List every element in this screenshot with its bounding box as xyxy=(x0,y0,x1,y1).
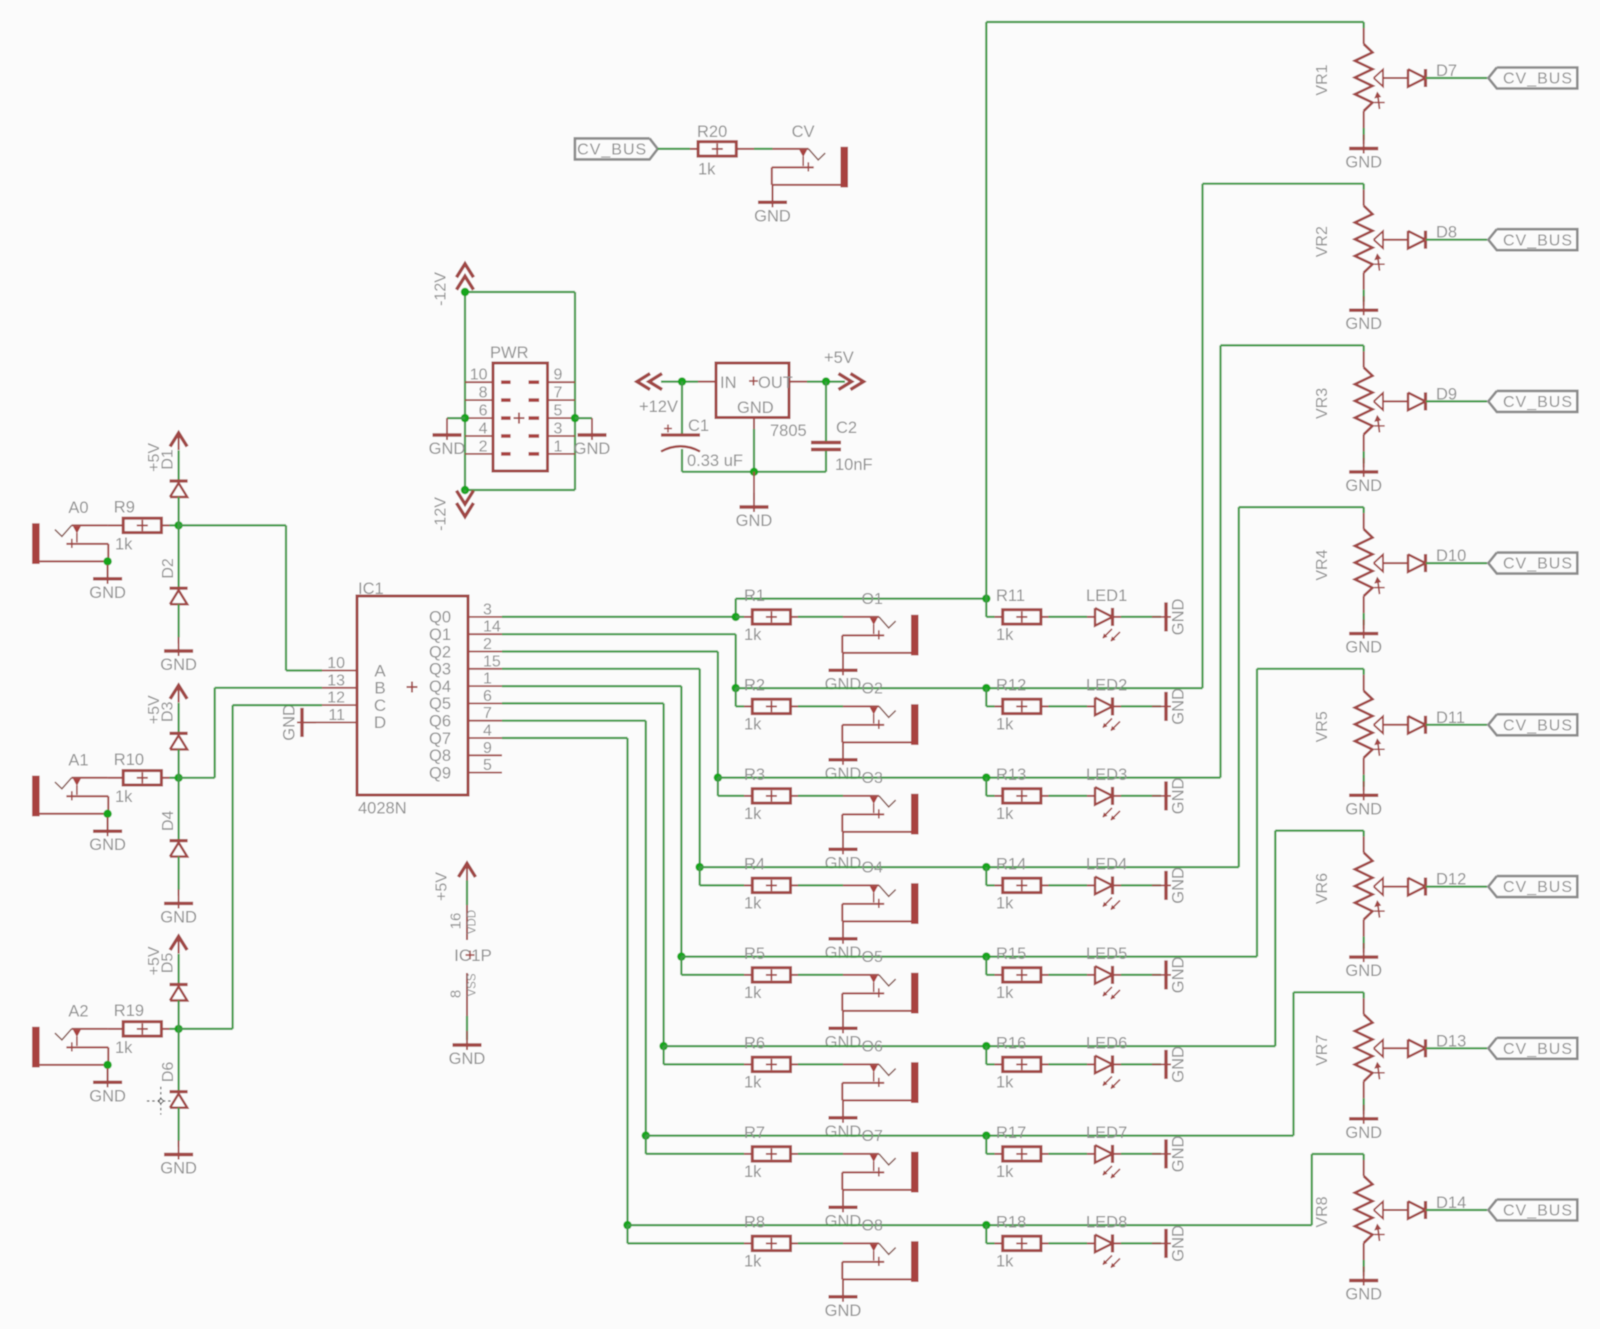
ground xyxy=(160,889,197,926)
wire xyxy=(178,604,180,637)
ground xyxy=(449,1031,486,1068)
wire xyxy=(178,778,180,841)
svg-text:D1: D1 xyxy=(160,449,177,470)
LED1 xyxy=(1086,587,1127,641)
wire xyxy=(1121,974,1161,976)
wire xyxy=(798,884,843,886)
wire xyxy=(1294,992,1364,1135)
svg-text:O7: O7 xyxy=(862,1128,883,1145)
potentiometer VR5 xyxy=(1314,675,1385,758)
ground xyxy=(281,704,323,741)
svg-text:4: 4 xyxy=(479,421,488,438)
junction xyxy=(982,684,990,692)
svg-text:GND: GND xyxy=(1170,867,1188,904)
svg-text:1k: 1k xyxy=(744,894,762,912)
svg-text:VR4: VR4 xyxy=(1314,549,1331,580)
wire xyxy=(986,957,994,975)
svg-text:R4: R4 xyxy=(744,856,765,874)
wire xyxy=(178,1001,180,1029)
wire xyxy=(681,382,683,434)
svg-text:O3: O3 xyxy=(862,770,883,787)
ground xyxy=(1345,458,1382,495)
flag CV_BUS (VR5) xyxy=(1488,714,1577,735)
svg-text:R15: R15 xyxy=(996,945,1026,963)
svg-text:Q4: Q4 xyxy=(429,678,451,696)
wire xyxy=(1363,758,1365,787)
supply +5V (D1 ladder) xyxy=(146,433,187,472)
junction xyxy=(174,774,182,782)
svg-text:GND: GND xyxy=(825,944,862,962)
svg-text:GND: GND xyxy=(1345,800,1382,818)
junction xyxy=(714,773,722,781)
wire xyxy=(825,382,827,472)
wire xyxy=(1121,705,1161,707)
svg-text:3: 3 xyxy=(483,601,492,618)
power pins IC1P xyxy=(448,905,492,1016)
svg-text:10nF: 10nF xyxy=(835,456,873,474)
regulator IC2 7805 xyxy=(698,363,807,440)
wire Q7 net xyxy=(502,738,628,1225)
svg-text:Q8: Q8 xyxy=(429,747,451,765)
wire xyxy=(842,1190,844,1206)
ground xyxy=(1152,777,1188,814)
svg-text:1k: 1k xyxy=(744,805,762,823)
svg-text:A: A xyxy=(374,661,386,680)
svg-text:GND: GND xyxy=(1170,1135,1188,1172)
svg-text:Q3: Q3 xyxy=(429,661,451,679)
wire xyxy=(179,688,322,778)
wire xyxy=(465,489,575,491)
junction xyxy=(677,952,685,960)
capacitor C1 xyxy=(661,417,743,470)
cursor crosshair xyxy=(147,1087,172,1115)
wire Q4 net xyxy=(502,686,681,957)
svg-text:15: 15 xyxy=(483,653,501,670)
wire xyxy=(108,1028,124,1030)
jack O8 xyxy=(842,1217,918,1282)
wire xyxy=(1049,1242,1088,1244)
wire xyxy=(658,148,773,150)
wire xyxy=(179,705,322,1029)
wire xyxy=(661,381,698,383)
wire xyxy=(1121,884,1161,886)
svg-text:Q1: Q1 xyxy=(429,626,451,644)
wire xyxy=(1363,669,1365,675)
svg-text:1k: 1k xyxy=(744,715,762,733)
svg-text:R17: R17 xyxy=(996,1124,1026,1142)
supply +5V (7805 out) xyxy=(824,349,864,390)
diode D9 xyxy=(1383,385,1457,410)
ground xyxy=(1345,620,1382,657)
svg-text:Q5: Q5 xyxy=(429,695,451,713)
wire xyxy=(1121,616,1161,618)
wire xyxy=(1121,1063,1161,1065)
wire xyxy=(107,814,109,830)
junction xyxy=(982,1131,990,1139)
svg-text:OUT: OUT xyxy=(758,374,793,392)
resistor R13 xyxy=(995,766,1049,823)
svg-text:GND: GND xyxy=(825,1212,862,1230)
svg-text:2: 2 xyxy=(479,438,488,455)
svg-text:D3: D3 xyxy=(160,701,177,722)
wire xyxy=(736,688,744,706)
svg-text:GND: GND xyxy=(1345,154,1382,172)
wire xyxy=(170,1028,179,1030)
wire xyxy=(1363,1243,1365,1272)
resistor R20 xyxy=(690,123,754,178)
ground xyxy=(1345,135,1382,172)
junction xyxy=(732,684,740,692)
svg-text:1k: 1k xyxy=(996,715,1014,733)
wire xyxy=(466,1016,468,1040)
wire Q0 net xyxy=(502,599,736,617)
svg-text:R20: R20 xyxy=(697,123,727,141)
wire xyxy=(798,1153,843,1155)
supply +5V (D5 ladder) xyxy=(146,937,187,976)
LED5 xyxy=(1086,945,1127,999)
ground xyxy=(1345,943,1382,980)
ground xyxy=(89,565,126,602)
wire xyxy=(798,1063,843,1065)
jack A0 xyxy=(32,499,108,564)
svg-text:GND: GND xyxy=(89,836,126,854)
svg-text:CV_BUS: CV_BUS xyxy=(1503,1203,1573,1220)
svg-text:LED8: LED8 xyxy=(1086,1214,1127,1232)
svg-text:GND: GND xyxy=(737,399,774,417)
wire xyxy=(681,957,744,975)
svg-text:12: 12 xyxy=(327,690,345,707)
svg-text:GND: GND xyxy=(825,765,862,783)
jack O6 xyxy=(842,1038,918,1103)
ground xyxy=(825,1014,862,1051)
wire xyxy=(700,867,744,885)
svg-text:CV_BUS: CV_BUS xyxy=(1503,717,1573,734)
wire xyxy=(1363,434,1365,463)
ground xyxy=(1345,781,1382,818)
wire xyxy=(798,974,843,976)
potentiometer VR1 xyxy=(1314,28,1385,111)
junction xyxy=(103,810,111,818)
svg-text:7: 7 xyxy=(554,385,563,402)
svg-text:GND: GND xyxy=(1170,688,1188,725)
wire Q2 net xyxy=(502,652,718,778)
svg-text:GND: GND xyxy=(1170,956,1188,993)
wire xyxy=(628,1225,745,1243)
jack A2 xyxy=(32,1003,108,1068)
wire xyxy=(807,381,845,383)
svg-text:R12: R12 xyxy=(996,677,1026,695)
junction xyxy=(982,1221,990,1229)
ground xyxy=(825,1104,862,1141)
wire xyxy=(1049,884,1088,886)
flag CV_BUS (VR6) xyxy=(1488,876,1577,897)
svg-text:Q7: Q7 xyxy=(429,730,451,748)
wire xyxy=(646,1136,744,1154)
LED4 xyxy=(1086,856,1127,910)
potentiometer VR2 xyxy=(1314,190,1385,273)
supply +5V (D3 ladder) xyxy=(146,685,187,724)
svg-text:1k: 1k xyxy=(744,1073,762,1091)
svg-text:GND: GND xyxy=(1170,598,1188,635)
svg-text:GND: GND xyxy=(1345,1286,1382,1304)
wire xyxy=(1049,1063,1088,1065)
ground xyxy=(1152,688,1188,725)
svg-text:3: 3 xyxy=(554,421,563,438)
svg-text:C1: C1 xyxy=(688,417,709,435)
svg-text:1k: 1k xyxy=(698,160,716,178)
junction xyxy=(678,377,686,385)
wire xyxy=(628,1224,1312,1226)
diode D6 xyxy=(160,1062,188,1108)
junction xyxy=(461,486,469,494)
wire xyxy=(1363,831,1365,837)
diode D3 xyxy=(160,701,188,749)
svg-text:LED5: LED5 xyxy=(1086,945,1127,963)
wire xyxy=(986,688,994,706)
wire xyxy=(1275,831,1363,1047)
svg-text:R13: R13 xyxy=(996,766,1026,784)
flag CV_BUS (VR8) xyxy=(1488,1200,1577,1221)
svg-text:VR8: VR8 xyxy=(1314,1196,1331,1227)
svg-text:6: 6 xyxy=(479,403,488,420)
svg-text:2: 2 xyxy=(483,636,492,653)
wire xyxy=(842,1100,844,1116)
junction xyxy=(642,1131,650,1139)
svg-text:CV_BUS: CV_BUS xyxy=(577,141,647,158)
wire xyxy=(736,597,987,599)
svg-text:A0: A0 xyxy=(68,499,88,517)
wire xyxy=(170,777,179,779)
svg-text:LED3: LED3 xyxy=(1086,766,1127,784)
svg-text:LED2: LED2 xyxy=(1086,677,1127,695)
resistor R5 xyxy=(744,945,798,1002)
LED7 xyxy=(1086,1124,1127,1178)
wire xyxy=(1363,596,1365,625)
wire xyxy=(1049,1153,1088,1155)
wire xyxy=(986,1046,994,1064)
wire xyxy=(178,703,180,734)
junction xyxy=(982,594,990,602)
svg-text:CV_BUS: CV_BUS xyxy=(1503,879,1573,896)
svg-text:+5V: +5V xyxy=(824,349,854,367)
svg-text:VR1: VR1 xyxy=(1314,64,1331,95)
svg-text:+5V: +5V xyxy=(434,872,451,901)
svg-text:GND: GND xyxy=(1170,1046,1188,1083)
svg-text:R1: R1 xyxy=(744,587,765,605)
wire xyxy=(465,288,575,490)
wire xyxy=(1121,795,1161,797)
wire xyxy=(108,524,124,526)
svg-text:GND: GND xyxy=(160,1160,197,1178)
svg-text:R8: R8 xyxy=(744,1214,765,1232)
svg-text:Q6: Q6 xyxy=(429,713,451,731)
svg-text:1k: 1k xyxy=(744,626,762,644)
svg-text:GND: GND xyxy=(825,1302,862,1320)
svg-text:GND: GND xyxy=(89,1087,126,1105)
wire xyxy=(178,857,180,890)
LED2 xyxy=(1086,677,1127,731)
junction xyxy=(982,863,990,871)
wire xyxy=(1363,1081,1365,1110)
junction xyxy=(732,613,740,621)
jack O4 xyxy=(842,859,918,923)
wire xyxy=(1239,507,1364,867)
resistor R17 xyxy=(995,1124,1049,1181)
wire xyxy=(1049,795,1088,797)
svg-text:GND: GND xyxy=(89,584,126,602)
resistor R9 xyxy=(114,498,170,553)
wire xyxy=(1363,920,1365,949)
ground xyxy=(160,1141,197,1178)
potentiometer VR7 xyxy=(1314,998,1385,1081)
wire xyxy=(842,1011,844,1027)
svg-text:VR7: VR7 xyxy=(1314,1035,1331,1066)
svg-text:O2: O2 xyxy=(862,680,883,697)
svg-text:LED1: LED1 xyxy=(1086,587,1127,605)
svg-text:-12V: -12V xyxy=(433,497,450,531)
wire xyxy=(842,832,844,848)
wire xyxy=(986,599,994,617)
junction xyxy=(659,1042,667,1050)
svg-text:8: 8 xyxy=(479,385,488,402)
ground xyxy=(825,1283,862,1320)
svg-text:GND: GND xyxy=(825,1033,862,1051)
svg-text:D2: D2 xyxy=(160,558,177,579)
svg-text:1k: 1k xyxy=(996,984,1014,1002)
svg-text:CV: CV xyxy=(792,123,815,141)
svg-text:VDD: VDD xyxy=(467,910,479,934)
flag CV_BUS (VR3) xyxy=(1488,391,1577,412)
svg-text:Q0: Q0 xyxy=(429,609,451,627)
svg-text:1k: 1k xyxy=(996,805,1014,823)
wire xyxy=(646,1134,1294,1136)
wire Q3 net xyxy=(502,669,700,867)
wire xyxy=(1363,992,1365,998)
wire xyxy=(178,1108,180,1141)
connector PWR xyxy=(465,344,575,471)
svg-text:GND: GND xyxy=(160,656,197,674)
svg-text:GND: GND xyxy=(825,854,862,872)
flag CV_BUS (VR7) xyxy=(1488,1038,1577,1059)
diode D7 xyxy=(1383,62,1457,87)
diode D8 xyxy=(1383,224,1457,249)
wire xyxy=(986,1136,994,1154)
diode D4 xyxy=(160,810,188,856)
svg-text:5: 5 xyxy=(483,757,492,774)
wire xyxy=(170,524,179,526)
svg-text:GND: GND xyxy=(1170,777,1188,814)
svg-text:GND: GND xyxy=(429,440,466,458)
svg-text:VR3: VR3 xyxy=(1314,388,1331,419)
resistor R8 xyxy=(744,1214,798,1271)
wire xyxy=(1049,974,1088,976)
ground xyxy=(825,656,862,693)
wire xyxy=(1426,1209,1487,1211)
svg-text:4028N: 4028N xyxy=(358,800,407,818)
svg-text:R2: R2 xyxy=(744,677,765,695)
junction xyxy=(822,377,830,385)
wire Q6 net xyxy=(502,721,646,1136)
ground xyxy=(825,925,862,962)
svg-text:GND: GND xyxy=(1345,477,1382,495)
wire xyxy=(736,687,1203,689)
potentiometer VR8 xyxy=(1314,1160,1385,1243)
flag CV_BUS (VR1) xyxy=(1488,68,1577,89)
wire xyxy=(681,955,1257,957)
wire xyxy=(682,449,826,472)
svg-text:D4: D4 xyxy=(160,810,177,831)
resistor R16 xyxy=(995,1035,1049,1092)
svg-text:GND: GND xyxy=(1345,962,1382,980)
junction xyxy=(982,773,990,781)
wire Q1 net xyxy=(502,634,736,688)
capacitor C2 xyxy=(811,419,873,474)
svg-text:1k: 1k xyxy=(115,788,133,806)
svg-text:IC1: IC1 xyxy=(358,580,384,598)
wire xyxy=(1426,400,1487,402)
svg-text:1k: 1k xyxy=(996,1073,1014,1091)
svg-text:9: 9 xyxy=(554,367,563,384)
resistor R10 xyxy=(114,751,170,806)
svg-text:1k: 1k xyxy=(115,1039,133,1057)
svg-text:1k: 1k xyxy=(744,1252,762,1270)
ground xyxy=(1152,598,1188,635)
wire Q5 net xyxy=(502,703,664,1046)
diode D13 xyxy=(1383,1032,1466,1057)
ground xyxy=(1152,867,1188,904)
jack O5 xyxy=(842,949,918,1013)
diode D1 xyxy=(160,449,188,497)
wire xyxy=(1426,885,1487,887)
jack O1 xyxy=(842,591,918,655)
svg-text:A2: A2 xyxy=(68,1003,88,1021)
diode D10 xyxy=(1383,547,1466,572)
resistor R4 xyxy=(744,856,798,913)
resistor R14 xyxy=(995,856,1049,913)
svg-text:1k: 1k xyxy=(996,894,1014,912)
wire xyxy=(798,795,843,797)
svg-text:1: 1 xyxy=(483,671,492,688)
ground xyxy=(160,637,197,674)
resistor R19 xyxy=(114,1002,170,1057)
wire xyxy=(718,778,744,796)
svg-text:10: 10 xyxy=(327,655,345,672)
ground xyxy=(1152,1135,1188,1172)
ground xyxy=(825,1193,862,1230)
ground xyxy=(825,746,862,783)
ground xyxy=(754,188,791,225)
wire xyxy=(798,705,843,707)
potentiometer VR3 xyxy=(1314,351,1385,434)
wire xyxy=(1221,345,1364,777)
svg-text:14: 14 xyxy=(483,619,501,636)
wire xyxy=(1363,345,1365,351)
svg-text:GND: GND xyxy=(281,704,299,741)
ground xyxy=(825,835,862,872)
svg-text:9: 9 xyxy=(483,740,492,757)
LED6 xyxy=(1086,1035,1127,1089)
ground xyxy=(736,472,773,530)
junction xyxy=(623,1221,631,1229)
wire xyxy=(1363,507,1365,513)
wire xyxy=(1121,1242,1161,1244)
wire xyxy=(1121,1153,1161,1155)
flag CV_BUS (top input) xyxy=(575,138,658,159)
svg-text:R19: R19 xyxy=(114,1002,144,1020)
wire xyxy=(178,497,180,525)
resistor R1 xyxy=(736,587,798,644)
wire xyxy=(107,561,109,577)
